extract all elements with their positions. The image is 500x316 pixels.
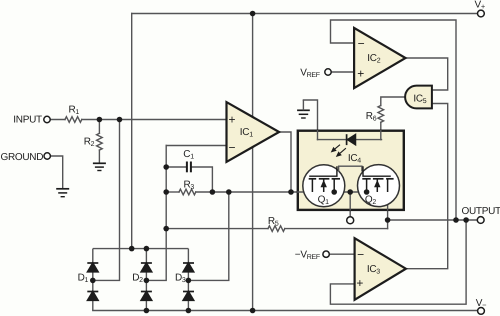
node input/R2 <box>97 117 103 123</box>
wire IC5 bottom input down to IC3 output <box>406 104 448 269</box>
node D2 mid <box>144 278 150 284</box>
terminal GROUND <box>44 153 50 159</box>
svg-text:R3: R3 <box>184 179 195 191</box>
node Q1 source <box>331 189 337 195</box>
node D2 bottom rail <box>144 308 150 314</box>
svg-text:R2: R2 <box>84 136 95 148</box>
terminal source below box <box>347 217 354 224</box>
diode D2 top <box>141 263 152 272</box>
wire R6 lead inside box <box>380 131 382 140</box>
wire V+ top rail <box>132 13 478 15</box>
node D3 mid <box>186 278 192 284</box>
node IC1 out / Q1 drain <box>288 189 294 195</box>
node D3 bottom rail <box>186 308 192 314</box>
diode column D2 wire <box>145 249 147 311</box>
wire ground above box to LED cathode <box>303 100 317 140</box>
wire VREF to IC2 + input <box>331 71 354 73</box>
wire INPUT node down to D1 mid <box>93 120 120 281</box>
node R5 left <box>163 226 169 232</box>
node source terminal <box>347 189 353 195</box>
node R3 left <box>163 189 169 195</box>
wire R5 left lead from feedback node <box>166 228 268 230</box>
svg-text:OUTPUT: OUTPUT <box>462 206 500 217</box>
wire GROUND terminal to ground symbol <box>50 156 63 189</box>
terminal OUTPUT <box>477 217 484 224</box>
terminal INPUT <box>44 116 50 122</box>
wire R3 left lead <box>166 191 179 193</box>
wire C1 left branch <box>166 166 186 168</box>
wire R2 to ground <box>98 150 100 163</box>
resistor R6 <box>378 106 384 123</box>
wire feedback vertical down to D2 mid <box>146 146 166 281</box>
diode D2 bottom <box>141 292 152 301</box>
wire Q2 drain inside box <box>387 179 389 210</box>
wire R6 top from IC5 output <box>381 97 405 106</box>
wire source stub to terminal inside box <box>349 192 351 210</box>
gate bridge between Q1 and Q2 <box>339 166 362 171</box>
wire IC3 + input feedback from output node <box>330 220 466 304</box>
op-amp IC1 <box>227 102 280 162</box>
svg-text:−: − <box>357 247 364 261</box>
svg-text:R5: R5 <box>268 216 279 228</box>
node output/IC2 feedback <box>453 217 459 223</box>
wire IC2 feedback loop from - input to output node <box>331 20 457 220</box>
node top rail / long vertical <box>250 11 256 17</box>
diode D1 top <box>87 263 98 272</box>
resistor R1 <box>65 117 82 123</box>
node D-top/D2 <box>144 246 150 252</box>
wire INPUT line to IC1 + input <box>50 119 65 121</box>
svg-text:+: + <box>356 276 363 290</box>
diode D1 bottom <box>87 292 98 301</box>
svg-text:R6: R6 <box>366 111 377 123</box>
wire IC1 - input to feedback node <box>166 145 226 147</box>
svg-text:GROUND: GROUND <box>1 152 44 163</box>
diode D3 top <box>183 263 194 272</box>
svg-text:−: − <box>358 37 365 51</box>
transistor Q2 body circle <box>358 165 400 207</box>
svg-text:V+: V+ <box>475 0 486 11</box>
resistor R2 <box>97 133 103 150</box>
ground symbol below R2 <box>93 163 106 170</box>
terminal -VREF <box>323 251 329 257</box>
wire R3 line through to Q-box <box>196 191 377 193</box>
capacitor C1 <box>187 162 191 173</box>
node output/IC3 feedback <box>463 217 469 223</box>
wire R3 node down to D3 mid <box>188 192 228 280</box>
wire R3 line inside box to Q internals <box>298 191 378 193</box>
terminal V- <box>478 308 485 315</box>
wire output line <box>388 219 478 221</box>
op-amp IC2 <box>354 28 405 88</box>
diode network verticals are drawn above; now dark component strokes <box>93 249 189 311</box>
node C1/R3 right <box>210 189 216 195</box>
svg-text:+: + <box>228 113 235 127</box>
node D-top rail left branch <box>129 246 135 252</box>
node D1 mid <box>90 278 96 284</box>
wire from top rail down to diode network <box>131 14 133 249</box>
opto box IC4 outline <box>298 131 404 210</box>
diode D3 bottom <box>183 292 194 301</box>
wire D-network top line <box>93 248 189 250</box>
op-amp IC3 <box>355 238 406 300</box>
wire C1 right branch <box>192 167 213 192</box>
svg-text:R1: R1 <box>69 105 80 117</box>
wire long vertical from top rail to V- rail (behind IC1) <box>252 14 254 311</box>
wire V- bottom rail <box>93 310 478 312</box>
wire LED cathode riser inside box <box>317 131 319 140</box>
wire -VREF to IC3 - input <box>329 253 354 255</box>
svg-text:+: + <box>357 66 364 80</box>
LED light arrows <box>331 145 346 157</box>
resistor R5 <box>268 226 285 232</box>
transistor Q1 body circle <box>303 165 345 207</box>
wire IC1 output down to Q1 drain line <box>279 132 291 192</box>
node Q2 source <box>364 189 370 195</box>
wire R1 to IC1 + input <box>82 119 227 121</box>
wire IC2 output to IC5 top input <box>406 58 448 90</box>
terminal VREF <box>325 69 331 75</box>
svg-text:D3: D3 <box>175 272 186 284</box>
diode column D1 wires <box>92 249 94 311</box>
wire R5 to output node <box>285 228 388 230</box>
wire LED anode line inside box <box>318 139 382 141</box>
gate IC5 <box>405 86 432 109</box>
wire LED line inside box (redraw over fill) <box>318 139 382 141</box>
node R3/D3 branch <box>226 189 232 195</box>
node C1 left <box>163 164 169 170</box>
LED inside IC4 <box>347 134 356 145</box>
wire Q2 drain down to output line <box>387 179 389 229</box>
svg-text:C1: C1 <box>183 149 194 161</box>
transistor Q1 internals <box>309 166 340 192</box>
svg-text:INPUT: INPUT <box>13 115 42 126</box>
wire R2 branch stem <box>98 120 100 134</box>
op-amp polarity signs <box>228 37 364 291</box>
node output/R5 <box>385 217 391 223</box>
svg-text:D2: D2 <box>132 272 143 284</box>
node long vertical / V- rail <box>250 308 256 314</box>
svg-text:−: − <box>228 141 235 155</box>
transistor Q2 internals <box>362 166 393 192</box>
svg-text:VREF: VREF <box>300 68 319 80</box>
svg-text:D1: D1 <box>78 272 89 284</box>
resistor R3 <box>179 189 196 195</box>
wire R6 bottom into box to LED line <box>380 122 382 139</box>
terminal V+ <box>478 10 485 17</box>
node input/D1 branch <box>117 117 123 123</box>
ground symbol above opto box <box>297 100 310 118</box>
svg-text:V−: V− <box>476 298 487 310</box>
ground symbol for GROUND terminal <box>56 189 69 197</box>
svg-text:−VREF: −VREF <box>295 250 320 262</box>
wire source terminal below box <box>349 192 351 217</box>
diode column D3 wire <box>187 249 189 311</box>
